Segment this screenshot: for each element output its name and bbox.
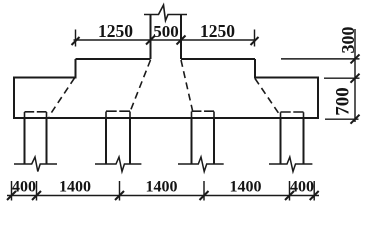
pile 4 embedded head (dashed) bbox=[281, 112, 304, 118]
column left face bbox=[150, 15, 152, 59]
bottom dimension tick at x=11.5 bbox=[7, 191, 16, 200]
svg-text:1250: 1250 bbox=[200, 21, 235, 41]
column break symbol (top) bbox=[144, 5, 187, 21]
pile 4 break symbol bbox=[269, 157, 312, 172]
svg-text:1400: 1400 bbox=[230, 179, 262, 196]
svg-text:400: 400 bbox=[290, 179, 314, 196]
top dimension right extension bar bbox=[254, 30, 256, 47]
top dimension tick at x=254.5 bbox=[251, 37, 259, 45]
load spread dashed line to pile 4 bbox=[255, 79, 279, 114]
svg-text:500: 500 bbox=[153, 22, 179, 41]
right extension line at top of upper tier bbox=[281, 58, 360, 60]
pile 4 shaft bbox=[281, 118, 304, 164]
load spread dashed line to pile 2 bbox=[131, 60, 151, 111]
pile 1 shaft bbox=[25, 118, 47, 164]
right dimension tick at y=78.2 bbox=[351, 74, 360, 83]
bottom dimension tick at x=204 bbox=[200, 191, 209, 200]
bottom dimension tick at x=314.2 bbox=[310, 191, 319, 200]
top dimension left extension bar bbox=[75, 30, 77, 47]
load spread dashed line to pile 1 bbox=[49, 78, 75, 117]
svg-text:700: 700 bbox=[333, 87, 354, 116]
svg-text:1250: 1250 bbox=[98, 21, 133, 41]
right extension line at cap bottom bbox=[325, 118, 359, 120]
right dimension line bbox=[354, 29, 356, 122]
pile cap outline (two-tier footing) bbox=[14, 59, 318, 118]
bottom dimension line bbox=[7, 195, 319, 197]
svg-text:1400: 1400 bbox=[146, 179, 178, 196]
pile 1 embedded head (dashed) bbox=[25, 112, 47, 118]
pile 2 shaft bbox=[106, 118, 130, 164]
right dimension tick at y=119.2 bbox=[351, 115, 360, 124]
bottom extension bar at x=314.2 bbox=[313, 181, 315, 201]
bottom dimension tick at x=289.5 bbox=[285, 191, 294, 200]
top dimension tick at x=181 bbox=[177, 36, 186, 45]
pile 3 embedded head (dashed) bbox=[192, 112, 215, 119]
svg-text:1400: 1400 bbox=[59, 179, 91, 196]
svg-text:400: 400 bbox=[12, 179, 36, 196]
bottom extension bar at x=204 bbox=[203, 181, 205, 201]
pile 3 shaft bbox=[192, 118, 215, 164]
pile 1 break symbol bbox=[14, 157, 57, 172]
bottom dimension tick at x=36.5 bbox=[32, 191, 41, 200]
top dimension tick at x=150.5 bbox=[146, 36, 155, 45]
pile 3 break symbol bbox=[178, 157, 224, 172]
bottom extension bar at x=119.5 bbox=[119, 181, 121, 201]
pile 2 embedded head (dashed) bbox=[106, 112, 130, 119]
right extension line at top of lower tier bbox=[324, 77, 360, 79]
svg-text:300: 300 bbox=[338, 27, 358, 54]
bottom dimension tick at x=119.5 bbox=[115, 191, 124, 200]
top dimension tick at x=75.5 bbox=[72, 37, 80, 45]
bottom extension bar at x=289.5 bbox=[289, 181, 291, 201]
pile 2 break symbol bbox=[95, 157, 141, 172]
bottom extension bar at x=36.5 bbox=[36, 181, 38, 201]
right dimension tick at y=58.9 bbox=[351, 54, 360, 63]
top dimension line bbox=[74, 39, 257, 41]
bottom extension bar at x=11.5 bbox=[11, 181, 13, 201]
column right face bbox=[180, 15, 182, 59]
load spread dashed line to pile 3 bbox=[181, 60, 193, 111]
